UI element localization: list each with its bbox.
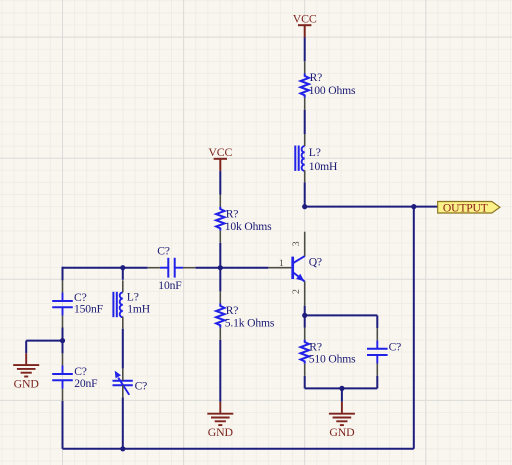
svg-text:VCC: VCC <box>293 11 317 25</box>
junction node E <box>302 313 307 318</box>
svg-text:1mH: 1mH <box>127 302 151 315</box>
wire C3 to bottom node <box>376 376 378 389</box>
wire GND tap vertical <box>25 341 27 354</box>
wire node E to C3 <box>376 315 378 328</box>
wire node OUT horizontal to port <box>305 206 438 208</box>
svg-text:R?: R? <box>226 208 239 221</box>
wire emitter to node E <box>304 306 306 316</box>
ground middle <box>207 402 233 425</box>
wire R1 to L1 <box>304 110 306 134</box>
wire base node to R5.1k <box>219 268 221 292</box>
svg-text:10nF: 10nF <box>158 279 182 292</box>
pin Q1 emitter <box>304 281 306 305</box>
junction base node <box>218 265 223 270</box>
wire Cvar to bottom <box>122 397 124 448</box>
svg-text:2: 2 <box>291 289 302 294</box>
wire tank top <box>63 267 148 269</box>
svg-text:GND: GND <box>208 425 234 439</box>
wire GND tap horizontal <box>26 340 62 342</box>
svg-text:VCC: VCC <box>208 145 232 159</box>
wire bottom feedback <box>63 448 414 450</box>
variable capacitor C5 <box>113 380 133 382</box>
junction left GND tap <box>60 338 65 343</box>
wire R5.1k to GND <box>219 340 221 402</box>
pin Q1 base <box>268 267 291 269</box>
wire R10k to base node <box>219 243 221 268</box>
resistor R1 <box>301 74 309 98</box>
capacitor C2 150nF <box>52 300 73 302</box>
svg-text:C?: C? <box>157 245 170 258</box>
wire emitter bottom horizontal <box>305 387 378 389</box>
wire emitter GND stub <box>341 388 343 401</box>
svg-text:100 Ohms: 100 Ohms <box>309 84 356 97</box>
resistor R2 10k <box>216 207 224 231</box>
power VCC middle <box>214 159 227 171</box>
junction tank top <box>120 265 125 270</box>
resistor R4 510 <box>301 340 309 364</box>
wire left rail top segment <box>62 267 64 281</box>
junction node OUT <box>302 204 307 209</box>
resistor R3 5.1k <box>216 304 224 328</box>
svg-text:C?: C? <box>389 340 402 353</box>
port OUTPUT <box>438 202 500 214</box>
transistor Q1 NPN <box>291 257 294 279</box>
wire tank rail upper <box>122 268 124 280</box>
svg-text:R?: R? <box>310 71 323 84</box>
junction right rail <box>411 204 416 209</box>
wire C10n to base node <box>195 267 268 269</box>
svg-text:3: 3 <box>291 241 302 246</box>
svg-text:R?: R? <box>309 340 322 353</box>
wire VCC2 to R10k <box>219 171 221 195</box>
pin Q1 collector <box>304 232 306 257</box>
wire L1 to node OUT <box>304 182 306 206</box>
junction emitter GND <box>339 386 344 391</box>
capacitor C4 emitter <box>367 348 388 350</box>
svg-text:150nF: 150nF <box>74 303 104 316</box>
svg-text:OUTPUT: OUTPUT <box>443 201 488 214</box>
inductor L1 <box>294 146 296 171</box>
svg-text:10mH: 10mH <box>309 160 338 173</box>
svg-text:GND: GND <box>329 425 355 439</box>
wire left rail bottom segment <box>62 401 64 449</box>
svg-text:R?: R? <box>226 304 239 317</box>
svg-text:5.1k Ohms: 5.1k Ohms <box>225 316 275 329</box>
wire R510 to bottom node <box>304 376 306 389</box>
svg-text:Q?: Q? <box>309 255 322 268</box>
svg-text:GND: GND <box>14 377 40 391</box>
wire VCC1 to R1 <box>304 37 306 61</box>
wire left rail mid segment <box>62 327 64 353</box>
inductor L2 1mH <box>112 292 114 317</box>
junction tank bottom <box>120 446 125 451</box>
svg-text:10k Ohms: 10k Ohms <box>225 220 272 233</box>
wire node E top horizontal <box>305 314 378 316</box>
capacitor C3 20nF <box>52 373 73 375</box>
ground left <box>13 353 39 376</box>
svg-text:20nF: 20nF <box>74 377 98 390</box>
wire right rail down <box>413 207 415 449</box>
power VCC top <box>298 25 311 37</box>
wire L2 to Cvar <box>122 329 124 369</box>
capacitor C1 10nF <box>167 258 169 278</box>
wire node E to R510 <box>304 315 306 327</box>
svg-text:1: 1 <box>279 258 284 269</box>
svg-text:510 Ohms: 510 Ohms <box>309 353 356 366</box>
svg-text:L?: L? <box>309 146 321 159</box>
ground emitter <box>329 402 355 425</box>
svg-text:C?: C? <box>135 379 148 392</box>
